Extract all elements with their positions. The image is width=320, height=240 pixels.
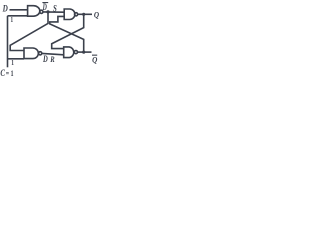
wire Q output	[78, 13, 92, 15]
svg-text:=: =	[6, 68, 9, 78]
svg-text:D: D	[42, 54, 48, 64]
wire C branch to gate 2	[8, 58, 25, 60]
wire C vertical riser	[7, 16, 9, 68]
wire C branch to gate 1	[8, 15, 28, 17]
svg-text:1: 1	[11, 68, 14, 78]
svg-text:1: 1	[11, 17, 14, 24]
svg-text:1: 1	[11, 59, 14, 67]
overline of D-bar	[42, 2, 48, 3]
svg-text:Q: Q	[94, 10, 100, 20]
NAND gate 2 bubble	[39, 52, 42, 55]
wire node R (gate2 output to gate4 input)	[42, 53, 64, 54]
svg-text:Q: Q	[92, 55, 98, 65]
NAND gate 2 (bottom left)	[24, 48, 38, 59]
NAND gate 4 bubble	[74, 51, 77, 54]
wire node S (gate1 output to gate3 input)	[43, 11, 64, 13]
wire Q-bar feedback to gate 3	[50, 16, 84, 52]
overline of Q-bar	[92, 55, 97, 56]
NAND gate 1 bubble	[40, 10, 43, 13]
svg-text:D: D	[2, 5, 8, 15]
wire Q feedback to gate 4	[52, 14, 84, 48]
wire D-bar feedback to gate 2	[10, 12, 48, 51]
svg-text:D: D	[42, 2, 47, 12]
junction dot Q-bar	[82, 51, 85, 54]
NAND gate 4 (bottom right)	[64, 47, 74, 58]
svg-text:R: R	[50, 54, 55, 64]
junction dot node S	[46, 10, 49, 13]
wire Q-bar output	[78, 51, 92, 53]
NAND gate 3 bubble	[75, 13, 78, 16]
svg-text:S: S	[53, 3, 57, 14]
NAND gate 1 (top left)	[28, 6, 40, 17]
NAND gate 3 (top right)	[64, 9, 75, 20]
wire D input	[10, 9, 28, 11]
junction dot Q	[82, 13, 85, 16]
